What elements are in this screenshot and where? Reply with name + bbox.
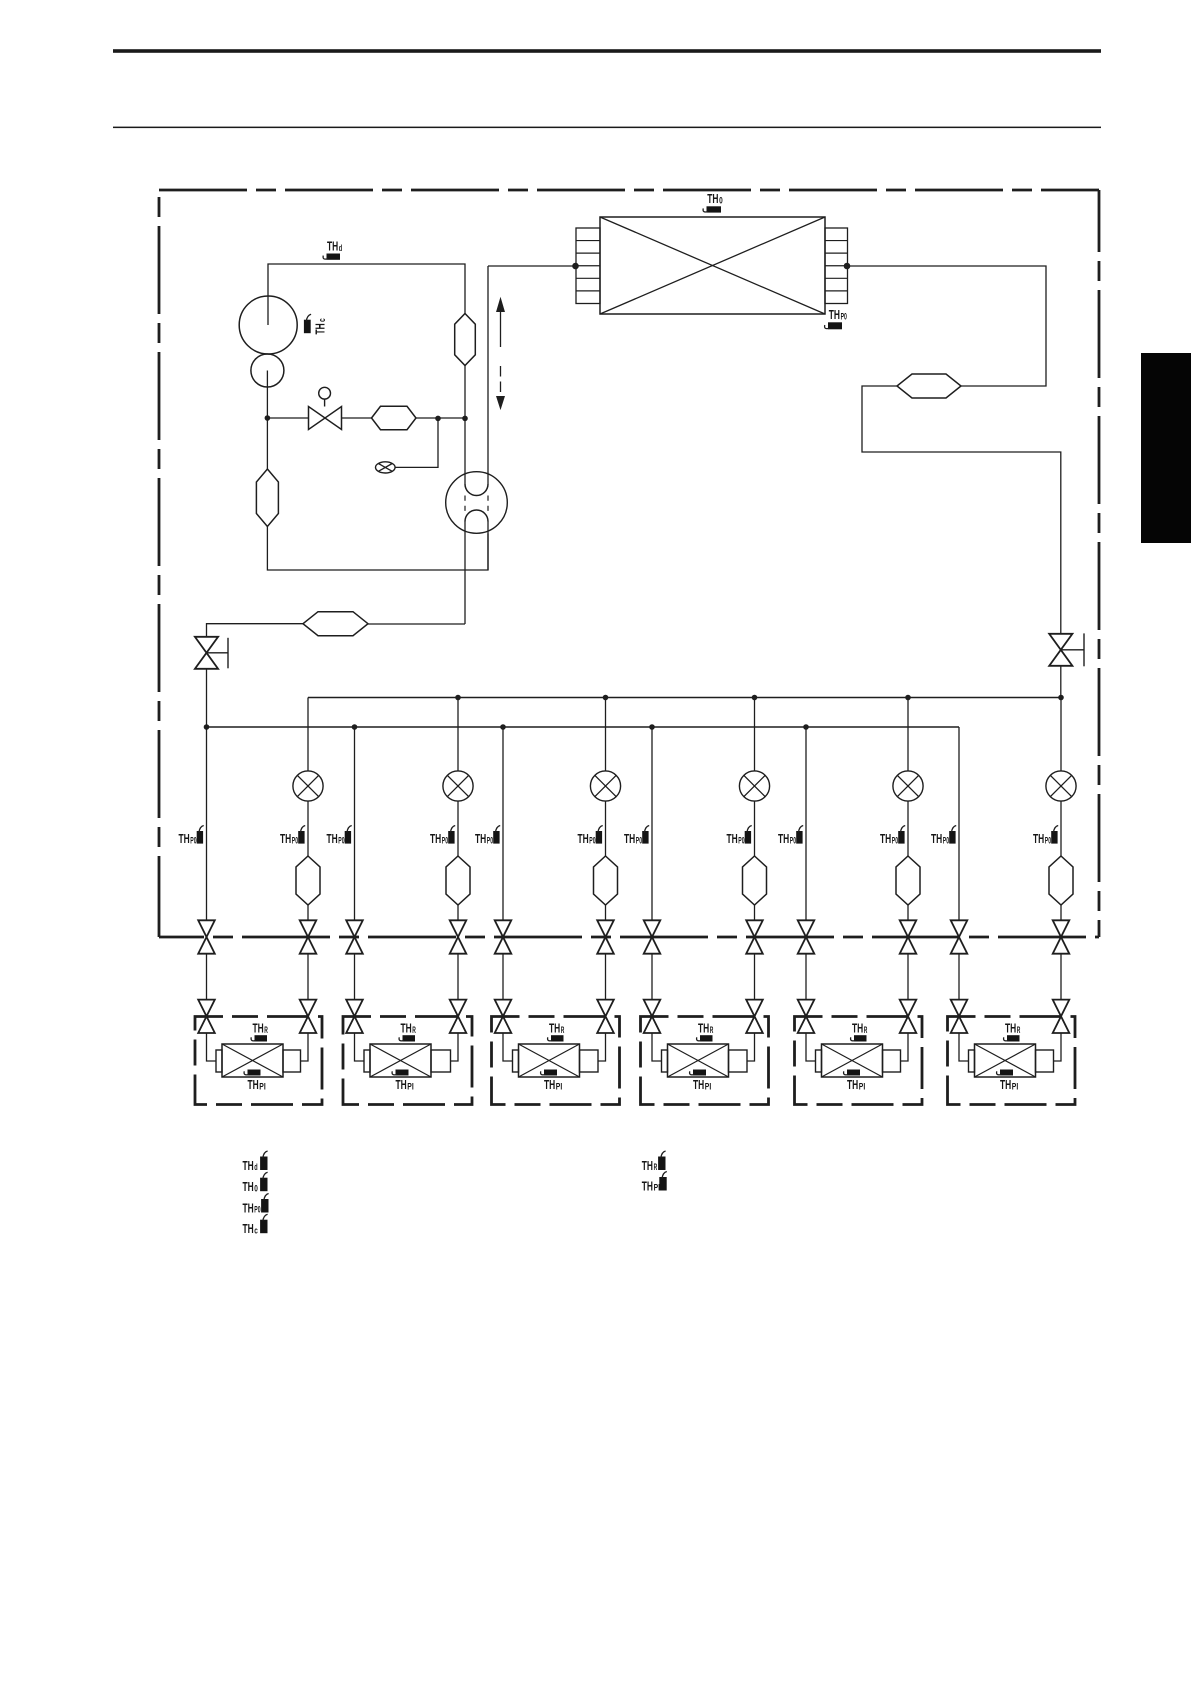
wire unit 4 outlet <box>747 1033 755 1061</box>
gas header lower manifold <box>207 726 960 728</box>
stop valve row1 branch 4 gas <box>644 920 661 953</box>
svg-text:P0: P0 <box>190 835 196 845</box>
svg-text:TH: TH <box>698 1021 709 1036</box>
stop valve row1 branch 2 liquid <box>450 920 467 953</box>
service valve liquid (right) <box>1049 634 1072 666</box>
indoor unit 2 heat exchanger left tab <box>364 1050 370 1072</box>
wire branch 6 gas pipe <box>958 727 960 920</box>
expansion valve branch 5 <box>893 771 923 801</box>
svg-text:TH: TH <box>253 1021 264 1036</box>
svg-text:0: 0 <box>254 1183 258 1193</box>
stop valve row2 branch 4 gas <box>644 1000 661 1033</box>
indoor unit 5 heat exchanger coil <box>822 1044 883 1077</box>
stop valve row1 branch 2 gas <box>346 920 363 953</box>
wire row1 to row2 branch 6 liquid <box>1060 954 1062 1000</box>
indoor unit 2 heat exchanger coil <box>370 1044 431 1077</box>
svg-text:TH: TH <box>243 1221 254 1236</box>
stop valve row2 branch 1 gas <box>198 1000 215 1033</box>
stop valve row2 branch 6 liquid <box>1053 1000 1070 1033</box>
wire unit 5 outlet <box>901 1033 909 1061</box>
svg-text:TH: TH <box>549 1021 560 1036</box>
node gas header tap branch 5 <box>803 724 809 730</box>
stop valve row2 branch 2 gas <box>346 1000 363 1033</box>
svg-text:TH: TH <box>475 831 486 846</box>
wire unit 3 inlet <box>503 1033 513 1061</box>
stop valve row2 branch 1 liquid <box>300 1000 317 1033</box>
liquid header upper manifold <box>308 697 1061 699</box>
stop valve row1 branch 3 liquid <box>597 920 614 953</box>
svg-text:TH: TH <box>707 191 718 206</box>
stop valve row2 branch 5 liquid <box>900 1000 917 1033</box>
wire four-way valve to gas strainer <box>368 623 465 625</box>
indoor unit 6 heat exchanger right tab <box>1036 1050 1054 1072</box>
four-way valve left pipe dashed section <box>464 496 466 512</box>
wire strainer to stop valve branch 1 <box>307 905 309 920</box>
page top rule thick <box>113 49 1101 53</box>
indoor unit 4 heat exchanger coil <box>668 1044 729 1077</box>
heat exchanger coil body <box>600 217 825 314</box>
indoor unit 5 heat exchanger right tab <box>883 1050 901 1072</box>
wire tee to injection valve <box>267 417 308 419</box>
wire heat exchanger right port down <box>847 266 1046 386</box>
expansion valve branch 6 <box>1046 771 1076 801</box>
indoor unit 2 dash-dot enclosure <box>343 1017 472 1105</box>
strainer branch 1 <box>296 856 320 905</box>
heat exchanger fin block right <box>825 228 848 304</box>
four-way valve right pipe lower <box>487 522 489 571</box>
svg-text:TH: TH <box>243 1200 254 1215</box>
node heat exchanger left port <box>572 263 579 270</box>
junction node sight glass tee <box>435 416 441 422</box>
indoor unit 4 heat exchanger left tab <box>662 1050 668 1072</box>
svg-text:P0: P0 <box>589 835 595 845</box>
wire strainer to stop valve branch 4 <box>754 905 756 920</box>
svg-text:P0: P0 <box>841 311 847 321</box>
svg-text:TH: TH <box>327 831 338 846</box>
svg-text:TH: TH <box>544 1077 555 1092</box>
stop valve row1 branch 4 liquid <box>746 920 763 953</box>
indoor unit 2 heat exchanger right tab <box>431 1050 451 1072</box>
svg-text:R: R <box>264 1025 268 1035</box>
wire branch 1 gas pipe <box>206 727 208 920</box>
svg-text:TH: TH <box>248 1077 259 1092</box>
strainer branch 6 <box>1049 856 1073 905</box>
node heat exchanger right port <box>844 263 851 270</box>
strainer branch 3 <box>594 856 618 905</box>
strainer branch 2 <box>446 856 470 905</box>
svg-text:TH: TH <box>778 831 789 846</box>
indoor unit 1 heat exchanger left tab <box>216 1050 222 1072</box>
outdoor unit dash-dot boundary bottom <box>159 936 1099 939</box>
expansion valve branch 3 <box>590 771 620 801</box>
four-way valve lower U-bend <box>465 510 488 521</box>
node liquid header tap branch 3 <box>603 695 609 701</box>
strainer branch 4 <box>743 856 767 905</box>
four-way valve upper U-bend <box>465 484 488 496</box>
wire liquid line to right service valve <box>862 386 1061 634</box>
four-way valve body <box>446 472 508 534</box>
svg-text:TH: TH <box>1000 1077 1011 1092</box>
thermistor THc on compressor shell (rotated) <box>304 320 311 334</box>
svg-text:R: R <box>710 1025 714 1035</box>
svg-text:0: 0 <box>719 195 723 205</box>
node liquid header tap branch 4 <box>752 695 758 701</box>
svg-text:P0: P0 <box>1045 835 1051 845</box>
wire branch 2 gas pipe <box>354 727 356 920</box>
svg-text:TH: TH <box>642 1158 653 1173</box>
svg-text:TH: TH <box>1033 831 1044 846</box>
indoor unit 5 dash-dot enclosure <box>795 1017 923 1105</box>
wire branch 3 gas pipe <box>502 727 504 920</box>
service valve gas (left) <box>195 637 218 669</box>
wire down to sight glass <box>395 418 438 467</box>
svg-text:TH: TH <box>243 1179 254 1194</box>
thermistor THPI unit 4 <box>693 1070 706 1076</box>
wire expansion valve to strainer branch 4 <box>754 801 756 856</box>
wire branch 4 gas pipe <box>651 727 653 920</box>
stop valve row2 branch 4 liquid <box>746 1000 763 1033</box>
stop valve row1 branch 6 gas <box>951 920 968 953</box>
stop valve row1 branch 3 gas <box>495 920 512 953</box>
thermistor THPI unit 2 <box>396 1070 409 1076</box>
black section tab right margin <box>1141 353 1191 543</box>
wire unit 5 inlet <box>806 1033 816 1061</box>
wire row1 to row2 branch 5 gas <box>805 954 807 1000</box>
svg-text:PI: PI <box>859 1081 865 1091</box>
wire expansion valve to strainer branch 5 <box>907 801 909 856</box>
svg-text:d: d <box>339 243 342 253</box>
stop valve row2 branch 6 gas <box>951 1000 968 1033</box>
svg-text:R: R <box>561 1025 565 1035</box>
svg-text:P0: P0 <box>292 835 298 845</box>
wire unit 3 outlet <box>598 1033 606 1061</box>
thermistor THPI unit 3 <box>544 1070 557 1076</box>
expansion valve branch 4 <box>739 771 769 801</box>
svg-text:TH: TH <box>727 831 738 846</box>
wire service valve to liquid header <box>1060 666 1062 698</box>
svg-text:TH: TH <box>396 1077 407 1092</box>
svg-text:P0: P0 <box>442 835 448 845</box>
four-way valve right pipe upper <box>487 266 489 484</box>
wire unit 1 outlet <box>301 1033 309 1061</box>
svg-text:TH: TH <box>430 831 441 846</box>
svg-text:TH: TH <box>693 1077 704 1092</box>
svg-text:TH: TH <box>578 831 589 846</box>
svg-text:c: c <box>254 1225 258 1235</box>
wire row1 to row2 branch 2 gas <box>354 954 356 1000</box>
wire branch 3 liquid drop <box>605 698 607 772</box>
wire row1 to row2 branch 3 gas <box>502 954 504 1000</box>
indoor unit 3 heat exchanger right tab <box>580 1050 599 1072</box>
thermistor THPI unit 1 <box>248 1070 261 1076</box>
indoor unit 1 dash-dot enclosure <box>195 1017 322 1105</box>
wire branch 5 gas pipe <box>805 727 807 920</box>
svg-text:R: R <box>864 1025 868 1035</box>
strainer gas line <box>303 612 368 636</box>
svg-text:TH: TH <box>179 831 190 846</box>
strainer injection line <box>372 406 417 429</box>
wire row1 to row2 branch 2 liquid <box>457 954 459 1000</box>
sight glass / capillary <box>376 462 396 473</box>
stop valve row1 branch 5 gas <box>798 920 815 953</box>
svg-text:P0: P0 <box>738 835 744 845</box>
wire four-way valve to heat exchanger left port <box>488 265 576 267</box>
svg-text:c: c <box>317 318 327 322</box>
svg-text:P0: P0 <box>892 835 898 845</box>
svg-text:R: R <box>654 1162 658 1172</box>
node gas header tap branch 4 <box>649 724 655 730</box>
junction node suction/injection tee <box>265 415 271 421</box>
indoor unit 6 heat exchanger left tab <box>969 1050 975 1072</box>
wire strainer to stop valve branch 2 <box>457 905 459 920</box>
wire row1 to row2 branch 3 liquid <box>605 954 607 1000</box>
wire expansion valve to strainer branch 1 <box>307 801 309 856</box>
four-way valve left pipe upper <box>464 366 466 485</box>
wire expansion valve to strainer branch 2 <box>457 801 459 856</box>
expansion valve branch 1 <box>293 771 323 801</box>
indoor unit 6 heat exchanger coil <box>975 1044 1036 1077</box>
svg-text:R: R <box>1017 1025 1021 1035</box>
flow direction arrow dashed down <box>500 366 502 397</box>
node gas header tap branch 3 <box>500 724 506 730</box>
outdoor unit dash-dot boundary top <box>159 189 1099 192</box>
stop valve row1 branch 5 liquid <box>900 920 917 953</box>
svg-text:TH: TH <box>243 1158 254 1173</box>
wire unit 2 inlet <box>355 1033 365 1061</box>
svg-text:TH: TH <box>401 1021 412 1036</box>
wire valve to strainer <box>342 417 372 419</box>
svg-text:P0: P0 <box>254 1205 260 1215</box>
wire row1 to row2 branch 4 liquid <box>754 954 756 1000</box>
wire branch 1 liquid drop <box>307 698 309 772</box>
wire strainer to left service valve <box>207 624 304 637</box>
wire row1 to row2 branch 4 gas <box>651 954 653 1000</box>
svg-text:PI: PI <box>1012 1081 1018 1091</box>
stop valve row2 branch 2 liquid <box>450 1000 467 1033</box>
outdoor unit dash-dot boundary right <box>1098 190 1101 937</box>
node liquid header tap branch 6 <box>1058 695 1064 701</box>
wire row1 to row2 branch 1 liquid <box>307 954 309 1000</box>
node liquid header tap branch 5 <box>905 695 911 701</box>
strainer discharge line <box>455 314 476 366</box>
stop valve row1 branch 1 liquid <box>300 920 317 953</box>
svg-text:TH: TH <box>327 239 338 254</box>
svg-text:P0: P0 <box>487 835 493 845</box>
stop valve row1 branch 1 gas <box>198 920 215 953</box>
svg-text:TH: TH <box>1005 1021 1016 1036</box>
wire row1 to row2 branch 1 gas <box>206 954 208 1000</box>
svg-text:TH: TH <box>852 1021 863 1036</box>
wire strainer to stop valve branch 6 <box>1060 905 1062 920</box>
stop valve row2 branch 3 liquid <box>597 1000 614 1033</box>
svg-text:R: R <box>412 1025 416 1035</box>
indoor unit 6 dash-dot enclosure <box>948 1017 1076 1105</box>
wire suction line down from accumulator <box>266 371 268 470</box>
junction node at four-way valve left pipe <box>462 416 468 422</box>
svg-text:PI: PI <box>556 1081 562 1091</box>
expansion valve branch 2 <box>443 771 473 801</box>
strainer liquid line <box>897 374 961 398</box>
svg-text:TH: TH <box>313 323 328 334</box>
heat exchanger fin block left <box>576 228 600 304</box>
node gas header start <box>204 724 210 730</box>
indoor unit 4 heat exchanger right tab <box>729 1050 748 1072</box>
svg-text:TH: TH <box>880 831 891 846</box>
thermistor THPI unit 5 <box>847 1070 860 1076</box>
thermistor THPI unit 6 <box>1000 1070 1013 1076</box>
wire unit 1 inlet <box>207 1033 217 1061</box>
node liquid header tap branch 2 <box>455 695 461 701</box>
svg-text:P0: P0 <box>636 835 642 845</box>
wire branch 4 liquid drop <box>754 698 756 772</box>
indoor unit 3 heat exchanger left tab <box>513 1050 519 1072</box>
outdoor unit dash-dot boundary left <box>158 190 161 937</box>
strainer branch 5 <box>896 856 920 905</box>
node gas header tap branch 2 <box>352 724 358 730</box>
four-way valve right pipe dashed section <box>487 496 489 512</box>
wire suction bottom loop to four-way valve <box>267 527 488 571</box>
indoor unit 1 heat exchanger coil <box>222 1044 283 1077</box>
wire row1 to row2 branch 5 liquid <box>907 954 909 1000</box>
wire unit 6 inlet <box>959 1033 969 1061</box>
svg-text:d: d <box>254 1162 257 1172</box>
wire row1 to row2 branch 6 gas <box>958 954 960 1000</box>
svg-text:P0: P0 <box>338 835 344 845</box>
stop valve row2 branch 3 gas <box>495 1000 512 1033</box>
stop valve row1 branch 6 liquid <box>1053 920 1070 953</box>
indoor unit 5 heat exchanger left tab <box>816 1050 822 1072</box>
svg-text:P0: P0 <box>790 835 796 845</box>
indoor unit 4 dash-dot enclosure <box>641 1017 769 1105</box>
svg-text:P0: P0 <box>943 835 949 845</box>
svg-text:PI: PI <box>407 1081 413 1091</box>
svg-text:TH: TH <box>847 1077 858 1092</box>
indoor unit 1 heat exchanger right tab <box>283 1050 301 1072</box>
svg-text:TH: TH <box>624 831 635 846</box>
wire expansion valve to strainer branch 6 <box>1060 801 1062 856</box>
solenoid expansion valve injection <box>309 407 342 430</box>
svg-text:TH: TH <box>642 1178 653 1193</box>
wire unit 2 outlet <box>451 1033 459 1061</box>
wire expansion valve to strainer branch 3 <box>605 801 607 856</box>
svg-text:TH: TH <box>829 307 840 322</box>
wire branch 6 liquid drop <box>1060 698 1062 772</box>
wire unit 6 outlet <box>1054 1033 1062 1061</box>
four-way valve left pipe lower <box>464 522 466 625</box>
compressor shell <box>239 296 297 354</box>
svg-text:PI: PI <box>259 1081 265 1091</box>
wire branch 2 liquid drop <box>457 698 459 772</box>
page top rule thin <box>113 127 1101 129</box>
wire strainer to stop valve branch 5 <box>907 905 909 920</box>
svg-text:TH: TH <box>280 831 291 846</box>
flow direction arrow solid up <box>500 311 502 347</box>
wire unit 4 inlet <box>652 1033 662 1061</box>
compressor suction accumulator circle <box>251 354 284 387</box>
solenoid actuator circle <box>319 387 331 399</box>
stop valve row2 branch 5 gas <box>798 1000 815 1033</box>
svg-text:PI: PI <box>654 1183 660 1193</box>
indoor unit 3 heat exchanger coil <box>519 1044 580 1077</box>
indoor unit 3 dash-dot enclosure <box>492 1017 620 1105</box>
strainer suction line <box>256 469 278 527</box>
wire service valve to gas header <box>206 669 208 727</box>
wire compressor discharge to top header <box>268 264 465 325</box>
wire strainer to stop valve branch 3 <box>605 905 607 920</box>
wire strainer to four-way valve pipe <box>416 417 465 419</box>
svg-text:PI: PI <box>705 1081 711 1091</box>
wire branch 5 liquid drop <box>907 698 909 772</box>
svg-text:TH: TH <box>931 831 942 846</box>
